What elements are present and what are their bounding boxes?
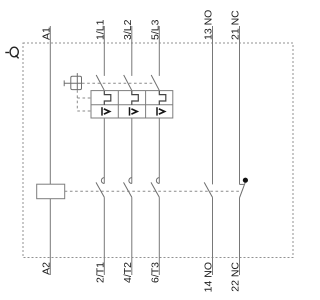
svg-text:A2: A2: [41, 262, 53, 275]
svg-text:A1: A1: [41, 27, 53, 40]
svg-text:22 NC: 22 NC: [230, 262, 242, 292]
svg-text:1/L1: 1/L1: [95, 19, 107, 40]
svg-text:2/T1: 2/T1: [95, 262, 107, 283]
svg-text:5/L3: 5/L3: [150, 19, 162, 40]
svg-text:13 NO: 13 NO: [203, 10, 215, 40]
svg-text:3/L2: 3/L2: [122, 19, 134, 40]
svg-text:14 NO: 14 NO: [203, 262, 215, 292]
svg-text:21 NC: 21 NC: [230, 10, 242, 40]
svg-text:4/T2: 4/T2: [122, 262, 134, 283]
svg-text:6/T3: 6/T3: [150, 262, 162, 283]
